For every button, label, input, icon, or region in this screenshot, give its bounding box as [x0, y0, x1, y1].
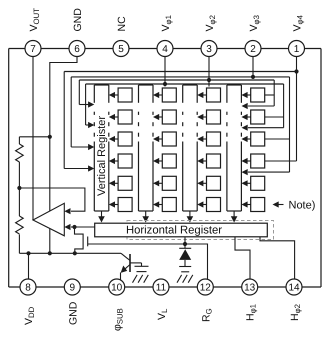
svg-text:6: 6: [74, 44, 80, 55]
svg-text:NC: NC: [116, 16, 128, 32]
svg-text:7: 7: [30, 44, 36, 55]
svg-text:2: 2: [250, 44, 256, 55]
svg-text:Vertical Register: Vertical Register: [96, 116, 108, 196]
svg-text:5: 5: [118, 44, 124, 55]
svg-text:8: 8: [25, 283, 31, 294]
svg-text:Horizontal Register: Horizontal Register: [126, 225, 222, 237]
svg-text:9: 9: [70, 283, 76, 294]
svg-text:11: 11: [156, 283, 167, 294]
svg-text:4: 4: [162, 44, 168, 55]
svg-text:GND: GND: [72, 8, 84, 32]
svg-text:10: 10: [111, 283, 123, 294]
svg-text:3: 3: [206, 44, 212, 55]
svg-text:1: 1: [294, 44, 300, 55]
svg-text:14: 14: [288, 283, 300, 294]
svg-text:Note): Note): [289, 199, 316, 211]
svg-text:GND: GND: [67, 301, 79, 325]
svg-text:13: 13: [244, 283, 256, 294]
svg-text:12: 12: [200, 283, 212, 294]
